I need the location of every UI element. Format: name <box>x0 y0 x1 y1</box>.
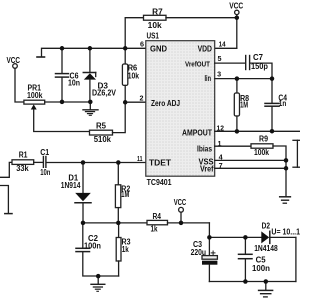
ground right column <box>280 196 291 198</box>
svg-text:1N914: 1N914 <box>61 181 81 190</box>
connector bracket right edge <box>293 139 300 141</box>
svg-text:33k: 33k <box>16 164 29 173</box>
resistor R3 <box>118 223 120 238</box>
node C5 top <box>243 235 248 240</box>
svg-text:VDD: VDD <box>198 44 212 54</box>
pin numbers <box>137 40 226 170</box>
ground stub top-left single bar <box>37 56 45 58</box>
node VCC VDD <box>235 15 240 20</box>
ground under D3 <box>89 102 91 110</box>
svg-text:1N4148: 1N4148 <box>254 244 278 253</box>
resistor R1 <box>12 160 34 165</box>
node R8 bottom <box>235 129 240 134</box>
svg-text:R7: R7 <box>152 8 163 17</box>
svg-text:R4: R4 <box>153 212 162 221</box>
svg-text:10k: 10k <box>148 21 163 30</box>
node D3 ground <box>88 100 93 105</box>
svg-text:3: 3 <box>217 70 221 79</box>
svg-text:AMPOUT: AMPOUT <box>182 128 212 138</box>
diode D2 <box>261 231 269 243</box>
svg-text:Vref: Vref <box>200 164 214 174</box>
svg-text:Iin: Iin <box>205 73 212 83</box>
svg-text:C1: C1 <box>40 148 50 157</box>
node D1 bottom <box>81 221 86 226</box>
svg-text:1M: 1M <box>240 101 248 110</box>
node C6 bottom <box>60 100 65 105</box>
diode D1 <box>82 163 84 193</box>
svg-text:10k: 10k <box>128 72 140 81</box>
node R2 R3 <box>116 221 121 226</box>
capacitor C5 <box>244 237 246 254</box>
svg-text:US1: US1 <box>147 32 160 41</box>
svg-text:1M: 1M <box>121 190 129 199</box>
capacitor C1 <box>42 157 44 168</box>
svg-text:2: 2 <box>140 93 144 102</box>
svg-text:GND: GND <box>150 44 167 54</box>
zener diode D3 <box>89 48 91 72</box>
node C7 C4 <box>270 76 275 81</box>
svg-text:1k: 1k <box>151 225 158 234</box>
wire pin14 VDD <box>215 47 237 49</box>
resistor R5 <box>90 130 113 135</box>
resistor R7 <box>125 18 143 49</box>
wire D2 row <box>209 236 261 238</box>
capacitor C2 <box>82 223 84 248</box>
svg-text:VrefOUT: VrefOUT <box>185 59 211 68</box>
node zero adj <box>123 100 128 105</box>
node D1 top <box>81 160 86 165</box>
node R2 top <box>116 160 121 165</box>
node C4 bottom <box>270 129 275 134</box>
potentiometer PR1 <box>24 100 45 104</box>
svg-text:U= 10...1: U= 10...1 <box>271 228 300 237</box>
VCC terminal left <box>13 64 18 69</box>
node C3 branch <box>207 235 212 240</box>
IC U1 TC9401 body <box>146 41 215 177</box>
wire node R4 row <box>83 222 147 224</box>
resistor R4 <box>147 220 168 224</box>
svg-text:R1: R1 <box>19 151 28 160</box>
svg-text:100k: 100k <box>27 91 43 100</box>
svg-text:10n: 10n <box>40 168 50 177</box>
svg-text:1: 1 <box>218 139 222 148</box>
capacitor C3 electrolytic <box>202 256 217 260</box>
node C6 top <box>60 46 65 51</box>
svg-text:TDET: TDET <box>149 157 171 167</box>
node R6 R7 <box>123 46 128 51</box>
svg-text:11: 11 <box>137 154 143 163</box>
svg-text:VCC: VCC <box>174 198 187 207</box>
wire pin4 VSS <box>215 159 286 161</box>
svg-text:D2: D2 <box>262 222 271 231</box>
capacitor C6 <box>61 48 63 73</box>
VCC terminal middle <box>179 207 184 212</box>
svg-text:100k: 100k <box>254 148 270 157</box>
input stub lower with bar <box>0 186 8 214</box>
node C2 ground rail <box>96 274 101 279</box>
svg-text:100n: 100n <box>252 264 270 273</box>
node VSS <box>284 158 289 163</box>
wire TDET net left input <box>0 162 12 177</box>
node Vref <box>284 166 289 171</box>
resistor R2 <box>117 163 119 185</box>
wire pin3 Iin <box>215 78 272 80</box>
svg-text:R9: R9 <box>259 135 269 144</box>
node R8 top <box>235 76 240 81</box>
wire pin7 Vref <box>215 167 286 169</box>
wire C3 column <box>208 223 210 255</box>
capacitor C7 <box>245 56 247 70</box>
PR1 wiper arrow <box>31 104 37 109</box>
svg-text:7: 7 <box>219 161 223 170</box>
resistor R6 <box>124 48 126 64</box>
node C5 bottom <box>243 279 248 284</box>
node D3 top <box>88 46 93 51</box>
resistor R8 <box>236 79 238 93</box>
svg-text:10n: 10n <box>68 78 80 87</box>
svg-text:14: 14 <box>219 40 226 49</box>
VCC terminal top right <box>235 10 239 14</box>
svg-text:VCC: VCC <box>7 56 21 65</box>
svg-text:TC9401: TC9401 <box>147 178 173 187</box>
ground under C2 rail <box>97 276 99 284</box>
svg-text:1k: 1k <box>122 245 129 254</box>
svg-text:150p: 150p <box>251 62 268 71</box>
ground bottom right <box>265 282 267 290</box>
wire pin2 Zero ADJ <box>125 101 146 103</box>
svg-text:5: 5 <box>218 54 222 63</box>
svg-text:Ibias: Ibias <box>197 144 212 154</box>
svg-text:220u: 220u <box>191 248 207 257</box>
svg-text:6: 6 <box>140 40 144 49</box>
svg-text:VCC: VCC <box>229 1 243 10</box>
wire bottom-right rail <box>209 281 296 283</box>
capacitor C4 <box>271 79 273 103</box>
svg-text:100n: 100n <box>84 242 101 251</box>
node VCC R4 <box>179 221 184 226</box>
node ground tap bottom right <box>264 279 269 284</box>
wire top rail GND net <box>42 48 146 56</box>
wire pin5 VrefOUT <box>215 62 246 64</box>
svg-text:12: 12 <box>217 123 225 132</box>
svg-text:DZ6,2V: DZ6,2V <box>92 89 117 98</box>
svg-text:C7: C7 <box>253 53 264 62</box>
svg-text:R5: R5 <box>96 122 107 131</box>
svg-text:Zero ADJ: Zero ADJ <box>151 98 180 108</box>
svg-text:1n: 1n <box>279 99 287 108</box>
wire pin12 AMPOUT <box>215 130 300 132</box>
svg-text:510k: 510k <box>94 135 112 144</box>
IC pin names <box>149 44 214 174</box>
resistor R9 <box>251 144 273 148</box>
wire pin1 Ibias <box>215 145 251 147</box>
